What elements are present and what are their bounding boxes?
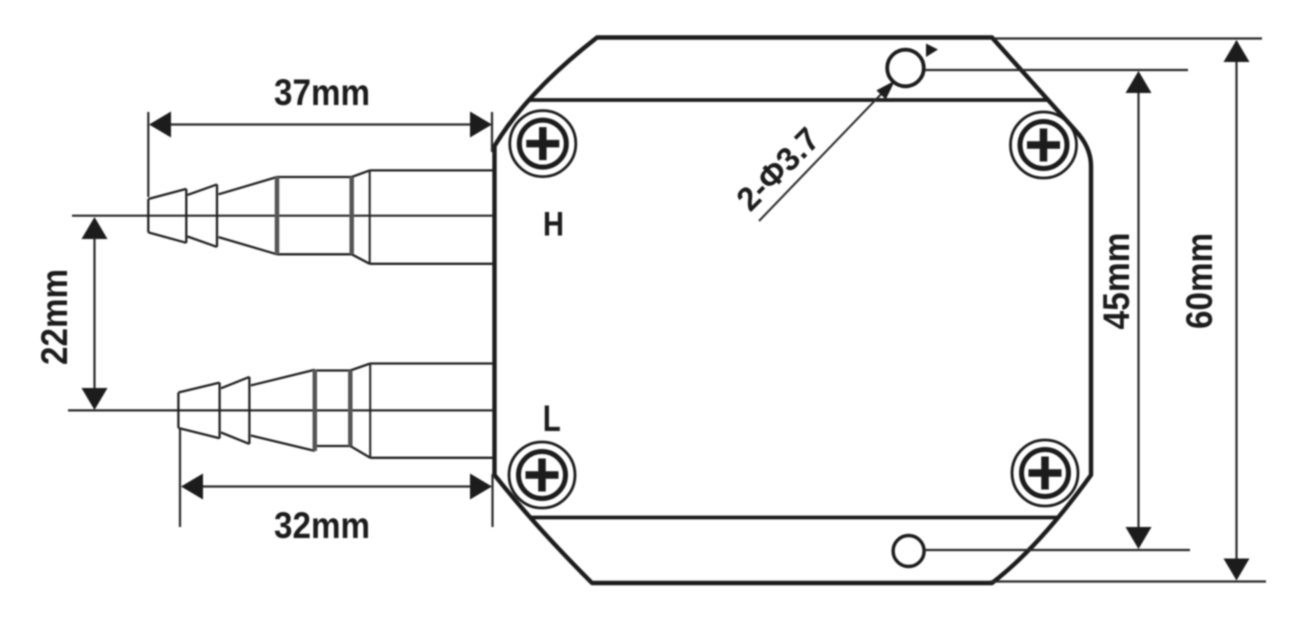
H nozzle centerline — [72, 215, 493, 217]
H nozzle thick collar lines — [275, 177, 280, 254]
dimension 60mm extension lines — [994, 37, 1262, 39]
dimension 37mm extension lines — [147, 112, 149, 197]
svg-text:22mm: 22mm — [34, 269, 75, 365]
dimension 32mm left arrow — [181, 474, 203, 500]
top lid seam line — [529, 98, 1049, 102]
dimension 32mm line — [183, 485, 490, 487]
svg-text:2-Φ3.7: 2-Φ3.7 — [729, 120, 827, 218]
svg-text:L: L — [543, 398, 561, 439]
dimension 60mm top arrow — [1224, 40, 1250, 62]
H nozzle outline — [148, 170, 493, 263]
dimension 45mm bottom arrow — [1126, 527, 1152, 549]
bottom lid seam line — [530, 516, 1057, 520]
screw bottom-right — [1012, 440, 1078, 506]
dimension 22mm line — [93, 220, 95, 407]
dimension 22mm bottom arrow — [82, 388, 108, 410]
screw top-left — [510, 111, 576, 177]
dimension 32mm extension lines — [179, 428, 181, 527]
screw bottom-left — [509, 442, 575, 508]
L nozzle outline — [178, 364, 493, 458]
top mounting hole — [887, 50, 924, 87]
svg-text:60mm: 60mm — [1179, 233, 1220, 329]
dimension 22mm top arrow — [82, 217, 108, 239]
screw top-right — [1011, 112, 1077, 178]
dimension 60mm bottom arrow — [1224, 559, 1250, 581]
dimension 45mm top arrow — [1126, 71, 1152, 93]
hole callout small arrow — [926, 44, 938, 58]
dimension 37mm left arrow — [149, 112, 171, 138]
hole callout leader line — [759, 87, 888, 221]
svg-text:32mm: 32mm — [274, 505, 370, 546]
svg-text:H: H — [543, 206, 564, 244]
hole callout leader arrow — [876, 81, 895, 100]
L nozzle centerline — [68, 409, 493, 411]
dimension 45mm line — [1137, 73, 1139, 547]
dimension 37mm right arrow — [470, 112, 492, 138]
dimension 37mm line — [152, 123, 489, 125]
dimension 60mm line — [1235, 41, 1237, 579]
L nozzle thick collar lines — [313, 370, 318, 451]
svg-text:37mm: 37mm — [274, 72, 370, 113]
bottom mounting hole — [893, 536, 924, 567]
sensor body outline — [495, 38, 1092, 584]
dimension 32mm right arrow — [470, 474, 492, 500]
dimension 45mm extension lines — [925, 69, 1188, 71]
svg-text:45mm: 45mm — [1096, 233, 1137, 330]
